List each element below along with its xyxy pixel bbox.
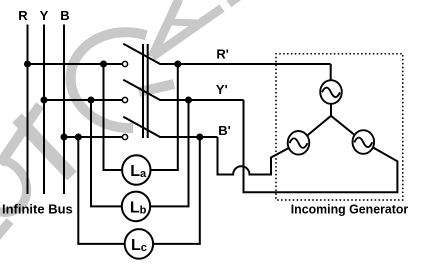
svg-text:B: B	[60, 8, 69, 23]
wire La left feed	[104, 64, 123, 170]
switch blade B	[123, 117, 159, 137]
wire B-phase to switch	[64, 136, 122, 138]
switch contact B	[122, 134, 127, 139]
wire La right feed	[151, 64, 178, 170]
wire R-phase switch to R'	[159, 63, 330, 65]
switch contact Y	[122, 97, 127, 102]
svg-text:Incoming Generator: Incoming Generator	[291, 202, 409, 217]
junction Y bus	[41, 97, 48, 104]
wire Lc right feed	[153, 137, 200, 244]
wire Lb right feed	[150, 100, 188, 206]
svg-text:Y: Y	[40, 8, 49, 23]
switch tie-bar	[142, 44, 144, 138]
wire R' drop to generator	[330, 64, 332, 80]
watermark	[0, 0, 241, 240]
svg-text:Infinite Bus: Infinite Bus	[2, 202, 73, 217]
junction B'	[196, 134, 203, 141]
junction B bus	[61, 134, 68, 141]
junction R'	[174, 61, 181, 68]
switch blade Y	[123, 80, 159, 100]
lamp Lc	[125, 229, 153, 259]
bus Y	[43, 25, 45, 195]
switch contact R	[122, 61, 127, 66]
switch blade R	[123, 44, 159, 64]
wire Lc left feed	[78, 137, 124, 244]
junction Y'	[185, 97, 192, 104]
svg-text:Y': Y'	[216, 82, 228, 97]
bus B	[63, 25, 65, 195]
wire star point	[307, 104, 355, 136]
bus R	[27, 25, 29, 195]
svg-text:R': R'	[216, 47, 228, 62]
junction Lc tap	[75, 134, 82, 141]
svg-text:B': B'	[218, 123, 230, 138]
wire Lb left feed	[91, 100, 122, 206]
wire B' feed to generator with crossover hump	[218, 137, 290, 175]
junction Lb tap	[88, 97, 95, 104]
generator enclosure (dotted)	[276, 54, 403, 200]
source G2 (B' phase)	[288, 131, 310, 155]
junction La tap	[100, 61, 107, 68]
wire Y' feed to generator	[244, 100, 398, 192]
junction R bus	[24, 61, 31, 68]
wire Y-phase switch to Y'	[159, 99, 243, 101]
wire Y-phase to switch	[44, 99, 122, 101]
lamp Lb	[122, 192, 150, 222]
wire R-phase to switch	[28, 63, 123, 65]
wire B-phase switch to B'	[159, 136, 217, 138]
source G1 (R' phase)	[320, 80, 342, 104]
source G3 (Y' phase)	[353, 130, 375, 154]
lamp La	[122, 155, 150, 185]
svg-text:R: R	[18, 8, 28, 23]
